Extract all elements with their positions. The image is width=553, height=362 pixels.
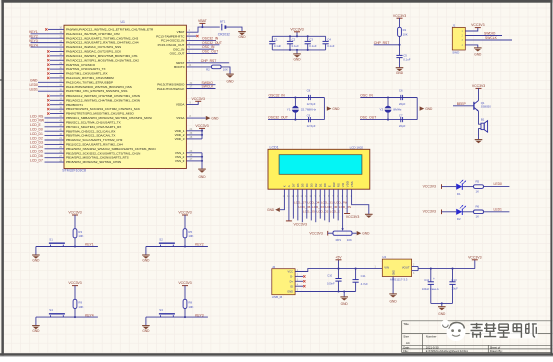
transistor S1 pushbutton <box>49 238 65 247</box>
junction VDD bus <box>201 130 203 136</box>
wire LCD_D3 to PB6 <box>30 141 64 145</box>
svg-text:GND: GND <box>425 107 433 111</box>
wire LCD_E LCD <box>329 189 340 222</box>
wire VSSA <box>186 115 205 118</box>
svg-text:SWDIO: SWDIO <box>484 32 496 36</box>
svg-text:E: E <box>327 185 331 187</box>
connector J2 USB_M <box>272 265 299 299</box>
resistor RP1 10K potentiometer <box>328 231 357 242</box>
wire LED0 net <box>484 182 510 187</box>
wire Y1 gnd bus <box>323 98 325 120</box>
wire BOOT0 <box>186 64 211 67</box>
transistor S2 pushbutton <box>159 238 175 247</box>
wire SWDIO J1 <box>465 32 502 36</box>
svg-text:File:: File: <box>403 349 409 353</box>
ground GND J1 <box>474 48 482 57</box>
wire KEY3 row <box>146 313 208 317</box>
wire KEY2 to gnd <box>145 247 147 255</box>
power port VCC3V3 VDD <box>195 124 208 128</box>
svg-text:+: + <box>433 277 435 281</box>
capacitor C12 100uF Case-A <box>422 269 439 304</box>
wire OSC32_IN net <box>269 93 325 97</box>
svg-text:PB5/I2C1_SMBA/SPI3_MOSI/I2S3_S: PB5/I2C1_SMBA/SPI3_MOSI/I2S3_SD/TIM3_CH2… <box>66 116 152 120</box>
svg-text:VSSA: VSSA <box>176 116 185 120</box>
wire LED1 to PA15 <box>30 87 65 91</box>
power port VCC3V3 VDDA <box>192 97 205 101</box>
wire J1 pin4 to gnd <box>465 45 478 48</box>
wire SWCLK <box>186 85 215 89</box>
resistor R5 1K <box>474 179 484 193</box>
wire BEEP net <box>453 102 474 106</box>
svg-text:2021-5-30: 2021-5-30 <box>426 345 439 349</box>
svg-text:LCD_D7: LCD_D7 <box>294 201 306 205</box>
svg-text:GND: GND <box>341 302 349 306</box>
svg-text:BOOT0: BOOT0 <box>174 65 185 69</box>
wire LCD VSS to gnd <box>352 189 369 214</box>
wire VBAT net <box>186 27 219 32</box>
buzzer B1 <box>481 117 488 132</box>
ground GND VSS <box>198 169 206 179</box>
svg-text:VSS: VSS <box>350 181 354 187</box>
power port +5V <box>335 255 342 268</box>
svg-text:LCD_D2: LCD_D2 <box>316 209 328 213</box>
node U2 pin1 number <box>375 267 377 269</box>
wire R8 to node <box>184 308 186 318</box>
ground GND battery <box>238 32 246 39</box>
svg-text:VCC3V3: VCC3V3 <box>423 210 436 214</box>
resistor R8 10K <box>183 299 193 309</box>
svg-text:D2: D2 <box>314 183 318 187</box>
svg-text:C2: C2 <box>292 38 296 42</box>
crystal Y2 8MHz <box>379 98 402 120</box>
svg-text:10uF: 10uF <box>451 287 458 291</box>
ground GND usb <box>340 292 348 307</box>
pin 10 no-connect stub <box>45 27 64 31</box>
svg-text:LED0: LED0 <box>30 83 39 87</box>
pin 15 no-connect stub <box>47 49 64 53</box>
svg-text:RS: RS <box>336 183 340 187</box>
power port VCC3V3 decoupling <box>290 27 303 36</box>
svg-text:100nF: 100nF <box>327 281 335 285</box>
svg-text:10K: 10K <box>78 234 83 238</box>
svg-text:GND: GND <box>362 232 370 236</box>
wire LCD K to gnd <box>280 189 285 210</box>
svg-text:KEY1: KEY1 <box>29 30 38 34</box>
wire LED0 to PA13 <box>30 83 65 87</box>
svg-text:C1: C1 <box>274 38 278 42</box>
wire CHP_RST net <box>374 41 400 45</box>
svg-text:LCD1: LCD1 <box>270 145 279 149</box>
svg-text:D-: D- <box>290 275 293 279</box>
svg-text:10K: 10K <box>403 33 408 37</box>
svg-text:A4: A4 <box>406 341 410 345</box>
svg-text:VCC3V3: VCC3V3 <box>290 27 303 31</box>
svg-text:GND: GND <box>287 289 293 293</box>
svg-text:C6: C6 <box>399 89 403 93</box>
wire LCD_D0 LCD <box>325 189 338 220</box>
ground GND regulator <box>389 294 397 303</box>
wire OSC32_OUT net <box>268 115 324 119</box>
wire VDDA <box>186 101 198 104</box>
wire decoupling top bus <box>272 35 325 37</box>
battery BT1 CR2032 <box>218 20 230 37</box>
wire SWDIO <box>186 81 215 85</box>
pin 29 no-connect stub <box>47 62 64 66</box>
svg-text:OSC_OUT: OSC_OUT <box>202 50 218 54</box>
svg-text:VDD_3: VDD_3 <box>175 137 185 141</box>
power port VCC3V3 KEY2 <box>178 211 191 229</box>
pin 40 no-connect stub <box>47 111 64 115</box>
svg-text:10K: 10K <box>347 238 352 242</box>
svg-text:SWD: SWD <box>452 51 460 55</box>
wire KEY3 to PA3 <box>29 39 64 43</box>
pin 30 no-connect stub <box>47 66 64 70</box>
svg-text:D2: D2 <box>457 217 461 221</box>
svg-text:PB4/NJTRST/SPI3_MISO/TIM3_CH1/: PB4/NJTRST/SPI3_MISO/TIM3_CH1/SPI1_MISO <box>66 112 134 116</box>
wire OSC_IN net <box>360 93 417 97</box>
svg-text:GND: GND <box>332 107 340 111</box>
wire LCD_D2 to PB5 <box>30 136 64 140</box>
wire KEY4 to PA4 <box>29 43 64 47</box>
svg-text:Y2: Y2 <box>379 108 383 112</box>
svg-text:LCD_RW: LCD_RW <box>30 119 45 123</box>
power port VCC3V3 buzzer <box>472 84 485 101</box>
svg-text:0.1uF: 0.1uF <box>309 44 317 48</box>
ground GND buzzer <box>475 140 483 144</box>
wire KEY2 row <box>146 243 208 247</box>
svg-text:R1: R1 <box>403 28 407 32</box>
svg-text:LCD_D2: LCD_D2 <box>30 136 43 140</box>
svg-text:R2: R2 <box>206 68 210 72</box>
pin 31 no-connect stub <box>47 71 64 75</box>
svg-text:LCD 1602: LCD 1602 <box>350 145 364 149</box>
pin USB D- no-connect <box>295 275 305 277</box>
svg-text:OSC_OUT: OSC_OUT <box>170 52 185 56</box>
svg-text:VCC: VCC <box>288 270 294 274</box>
svg-text:12.5pF: 12.5pF <box>307 124 316 128</box>
pin USB ID no-connect <box>295 285 305 287</box>
capacitor C1 0.1uF <box>269 36 281 50</box>
wire Y2 gnd bus <box>416 98 418 120</box>
svg-text:GND: GND <box>238 35 246 39</box>
svg-text:100uF Case-A: 100uF Case-A <box>422 287 439 291</box>
junction Y1 <box>294 96 296 120</box>
power port VCC3V3 KEY1 <box>68 211 81 229</box>
svg-text:10K: 10K <box>188 234 193 238</box>
svg-text:PA10/TIM1_CH3/USART1_RX: PA10/TIM1_CH3/USART1_RX <box>66 72 108 76</box>
power port VCC3V3 pot <box>309 231 327 236</box>
svg-text:C3: C3 <box>309 38 313 42</box>
svg-text:LCD_D4: LCD_D4 <box>308 201 320 205</box>
svg-text:LCD_D7: LCD_D7 <box>30 158 43 162</box>
svg-text:SS8050: SS8050 <box>481 105 492 109</box>
svg-text:OSC_OUT: OSC_OUT <box>360 115 376 119</box>
svg-text:LCD_D3: LCD_D3 <box>30 141 43 145</box>
svg-text:PB10/I2C2_SCL/USART3_TX/TIM2_C: PB10/I2C2_SCL/USART3_TX/TIM2_CH3 <box>66 138 123 142</box>
svg-text:ID: ID <box>290 284 293 288</box>
capacitor C11 4.7uF <box>353 268 369 292</box>
pin 32 no-connect stub <box>47 75 64 79</box>
svg-text:PC15-OSC32_OUT: PC15-OSC32_OUT <box>158 43 185 47</box>
wire output gnd rail <box>431 302 453 306</box>
svg-text:U1: U1 <box>121 20 125 24</box>
wire D2 to R6 <box>462 211 473 213</box>
wire LCD VDD to vcc <box>346 189 348 213</box>
node LCD pin names <box>283 181 354 187</box>
wire LCD_D4 to PB7 <box>30 145 64 149</box>
svg-text:PB3/JTDO/SPI3_SCK/I2S3_CK/TIM2: PB3/JTDO/SPI3_SCK/I2S3_CK/TIM2_CH2/SPI1_… <box>66 107 140 111</box>
svg-text:0.1uF: 0.1uF <box>403 58 411 62</box>
ground GND Y2 arrow <box>420 106 433 111</box>
capacitor C6 20pF <box>399 89 406 106</box>
svg-text:LED0: LED0 <box>494 182 503 186</box>
svg-text:PB15/SPI2_MOSI/I2S2_SD/TIM1_CH: PB15/SPI2_MOSI/I2S2_SD/TIM1_CH3N <box>66 160 121 164</box>
svg-text:D5: D5 <box>301 183 305 187</box>
wire VDD bus <box>186 128 202 139</box>
svg-text:PC14-OSC32_IN: PC14-OSC32_IN <box>161 39 184 43</box>
svg-text:VCC3V3: VCC3V3 <box>178 211 191 215</box>
svg-text:KEY4: KEY4 <box>29 43 38 47</box>
wire LCD_RW LCD <box>334 189 348 218</box>
svg-text:VDDA: VDDA <box>176 102 185 106</box>
svg-text:PA0/WKUP/ADC12_IN0/TIM2_CH1_ET: PA0/WKUP/ADC12_IN0/TIM2_CH1_ETR/TIM5_CH1… <box>66 28 154 32</box>
svg-text:D3: D3 <box>309 183 313 187</box>
junction VSS bus <box>201 156 203 162</box>
wire USB gnd bus <box>295 291 356 293</box>
svg-text:SWCLK: SWCLK <box>202 85 215 89</box>
svg-text:OSC32_OUT: OSC32_OUT <box>202 41 222 45</box>
svg-text:VCC3V3: VCC3V3 <box>68 211 81 215</box>
svg-text:+5V: +5V <box>335 255 342 259</box>
svg-text:PA15/TIM2_CH1_ETR/SPI3_NSS/SPI: PA15/TIM2_CH1_ETR/SPI3_NSS/SPI1_NSS <box>66 89 127 93</box>
ground GND LCD VSS <box>365 214 373 218</box>
svg-text:PB9/TIM4_CH4/I2C1_SDA/CAN_TX: PB9/TIM4_CH4/I2C1_SDA/CAN_TX <box>66 134 115 138</box>
wire U2 vout bus <box>412 265 475 275</box>
svg-text:GND: GND <box>394 270 396 275</box>
svg-text:Title: Title <box>403 322 409 326</box>
ground GND KEY1 <box>32 255 40 262</box>
wire LCD_D3 LCD <box>311 189 324 220</box>
crystal Y1 32.768KHz <box>287 98 317 120</box>
svg-text:VCC3V3: VCC3V3 <box>178 281 191 285</box>
svg-text:GND: GND <box>32 258 40 262</box>
svg-text:PA4/ADC12_IN4/DAC_OUT1/SPI1_NS: PA4/ADC12_IN4/DAC_OUT1/SPI1_NSS <box>66 45 121 49</box>
svg-text:PA1/ADC12_IN1/TIM5_CH2/TIM2_CH: PA1/ADC12_IN1/TIM5_CH2/TIM2_CH2 <box>66 32 120 36</box>
svg-text:PB14/SPI2_MISO/TIM1_CH2N/USART: PB14/SPI2_MISO/TIM1_CH2N/USART3_RTS <box>66 156 129 160</box>
svg-text:GND: GND <box>293 57 301 61</box>
svg-text:GND: GND <box>474 53 482 57</box>
svg-text:D0: D0 <box>323 183 327 187</box>
connector J1 SWD <box>452 23 465 54</box>
wire D1 to R5 <box>462 186 473 188</box>
svg-text:PB11/I2C2_SDA/USART3_RX/TIM2_C: PB11/I2C2_SDA/USART3_RX/TIM2_CH4 <box>66 143 123 147</box>
svg-text:C9: C9 <box>307 113 311 117</box>
wire OSC32_OUT stub <box>186 41 221 45</box>
wire LCD_D6 to PB9 <box>30 154 64 158</box>
capacitor C13 10uF <box>449 269 458 304</box>
svg-text:LCD_D5: LCD_D5 <box>303 209 315 213</box>
svg-text:10K: 10K <box>223 68 228 72</box>
svg-text:20pF: 20pF <box>399 102 406 106</box>
wire CHP_RST to NRST <box>186 59 229 63</box>
svg-text:1K: 1K <box>476 189 480 193</box>
capacitor C3 0.1uF <box>305 36 317 50</box>
wire LCD_D6 LCD <box>298 189 311 220</box>
power port VBAT <box>198 19 208 27</box>
wire R9 to node <box>74 308 76 318</box>
svg-text:VCC3V3: VCC3V3 <box>468 255 481 259</box>
op-amp U2 AMS1117-3.3 <box>382 255 411 281</box>
svg-text:GND: GND <box>30 79 38 83</box>
svg-text:GND: GND <box>198 175 206 179</box>
wire OSC_OUT stub <box>186 50 218 54</box>
pin USB D+ no-connect <box>295 280 305 282</box>
capacitor C10 100nF <box>327 269 342 292</box>
junction Y2 <box>387 96 389 120</box>
wire battery to gnd <box>225 27 242 31</box>
wire LCD_RS LCD <box>338 189 351 220</box>
ground GND Y1 arrow <box>327 106 340 111</box>
svg-text:VIN: VIN <box>384 266 389 270</box>
transistor S4 pushbutton <box>49 308 65 317</box>
svg-text:Size: Size <box>403 335 409 339</box>
svg-text:PA12/CAN_TX/TIM1_ETR/USBDP: PA12/CAN_TX/TIM1_ETR/USBDP <box>66 80 113 84</box>
wire U2 gnd <box>392 277 394 294</box>
capacitor C8 12.5pF <box>307 89 316 106</box>
svg-text:C4: C4 <box>327 38 331 42</box>
svg-text:USB_M: USB_M <box>272 295 283 299</box>
svg-text:GND: GND <box>267 208 275 212</box>
svg-text:10K: 10K <box>78 305 83 309</box>
svg-text:D7: D7 <box>292 183 296 187</box>
svg-text:OSC_IN: OSC_IN <box>173 47 184 51</box>
wire LCD_D0 to PB3 <box>30 127 64 131</box>
svg-text:A: A <box>287 185 291 187</box>
svg-text:LED1: LED1 <box>494 207 503 211</box>
ground GND KEY3 <box>142 326 150 333</box>
svg-text:GND: GND <box>142 258 150 262</box>
power port VCC3V3 J1 <box>471 23 484 27</box>
wire LCD_D4 LCD <box>307 189 320 218</box>
svg-text:Y1: Y1 <box>287 108 291 112</box>
svg-text:VDD: VDD <box>345 181 349 187</box>
svg-text:Drawn By:: Drawn By: <box>490 349 503 353</box>
ground GND boot0 <box>226 74 234 84</box>
wire KEY3 to gnd <box>145 317 147 325</box>
wire LCD_D7 LCD <box>293 189 306 218</box>
power port VCC3V3 KEY3 <box>178 281 191 299</box>
junction reset node <box>398 44 400 46</box>
resistor R5 10K <box>183 229 193 239</box>
svg-text:E:\STM32\LiuShuiDeng\Sheet1.Sc: E:\STM32\LiuShuiDeng\Sheet1.SchDoc <box>426 350 469 353</box>
svg-text:VCC3V3: VCC3V3 <box>68 281 81 285</box>
svg-text:0.1uF: 0.1uF <box>292 44 300 48</box>
pin 17 no-connect stub <box>47 57 64 61</box>
svg-text:C11: C11 <box>361 274 366 278</box>
wire OSC_IN stub <box>186 45 215 49</box>
power port VCC3V3 output <box>468 255 481 268</box>
wire VSS bus <box>186 150 202 169</box>
svg-text:VCC3V3: VCC3V3 <box>346 215 359 219</box>
svg-text:OSC32_OUT: OSC32_OUT <box>268 115 288 119</box>
power port VCC3V3 reset <box>393 14 406 28</box>
svg-text:KEY3: KEY3 <box>195 313 204 317</box>
wire R2 to gnd <box>221 67 230 74</box>
svg-text:8MHz: 8MHz <box>393 108 402 112</box>
capacitor C9 12.5pF <box>307 113 316 128</box>
wire Q1 emitter to buzzer <box>479 111 482 139</box>
svg-text:10K: 10K <box>188 305 193 309</box>
svg-text:LCD_D0: LCD_D0 <box>30 127 43 131</box>
diode LED D2 <box>456 205 466 221</box>
svg-text:LCD_D0: LCD_D0 <box>325 205 337 209</box>
svg-text:LCD_D6: LCD_D6 <box>30 154 43 158</box>
resistor R2 10K <box>206 65 228 72</box>
svg-text:S2: S2 <box>159 238 163 242</box>
junction decoupling vcc <box>296 35 298 37</box>
diode LED D1 <box>456 180 466 196</box>
wire KEY1 to PA1 <box>29 30 64 34</box>
svg-text:LCD_RS: LCD_RS <box>339 205 351 209</box>
svg-text:B1: B1 <box>481 117 485 121</box>
svg-text:0.1uF: 0.1uF <box>274 44 282 48</box>
svg-text:OSC32_IN: OSC32_IN <box>202 36 219 40</box>
capacitor C7 20pF <box>399 113 406 128</box>
junction C10 <box>337 290 345 292</box>
svg-text:GND: GND <box>438 312 446 316</box>
svg-text:VCC3V3: VCC3V3 <box>192 97 205 101</box>
svg-text:AMS1117-3.3: AMS1117-3.3 <box>390 278 408 282</box>
svg-text:J1: J1 <box>452 23 456 27</box>
svg-text:VBAT: VBAT <box>198 19 208 23</box>
wire GND to PA12 <box>30 79 64 83</box>
svg-text:32.768KHz: 32.768KHz <box>301 108 317 112</box>
svg-text:KEY1: KEY1 <box>85 243 94 247</box>
svg-text:PA8/TIM1_CH1/MCO: PA8/TIM1_CH1/MCO <box>66 63 96 67</box>
resistor R9 10K <box>73 299 83 309</box>
svg-text:KEY2: KEY2 <box>195 243 204 247</box>
wire KEY1 row <box>36 243 98 247</box>
svg-text:PA14/JTCK/SWCLK: PA14/JTCK/SWCLK <box>157 87 184 91</box>
svg-text:12.5pF: 12.5pF <box>307 102 316 106</box>
svg-text:C13: C13 <box>451 278 457 282</box>
svg-text:VCC3V3: VCC3V3 <box>309 231 322 235</box>
svg-text:VCC3V3: VCC3V3 <box>472 84 485 88</box>
svg-text:4.7uF: 4.7uF <box>361 282 369 286</box>
pin 16 no-connect stub <box>47 53 64 57</box>
svg-text:PA9/TIM1_CH2/USART1_TX: PA9/TIM1_CH2/USART1_TX <box>66 67 106 71</box>
wire LCD_D1 to PB4 <box>30 132 64 136</box>
svg-text:VCC3V3: VCC3V3 <box>471 23 484 27</box>
wire LED1 net <box>484 207 510 212</box>
svg-text:LCD_D6: LCD_D6 <box>299 205 311 209</box>
svg-text:D1: D1 <box>457 192 461 196</box>
svg-text:VCC3V3: VCC3V3 <box>423 185 436 189</box>
svg-text:LCD_D1: LCD_D1 <box>30 132 43 136</box>
wire LCD_D5 to PB8 <box>30 150 64 154</box>
wire vcc to D2 <box>442 211 457 213</box>
svg-text:PA11/CAN_RX/TIM1_CH4/USBDM: PA11/CAN_RX/TIM1_CH4/USBDM <box>66 76 114 80</box>
op-amp LCD1 module 1602 <box>268 145 370 189</box>
wire KEY4 row <box>36 313 98 317</box>
svg-text:C8: C8 <box>307 89 311 93</box>
svg-text:VOUT: VOUT <box>402 266 410 270</box>
svg-text:R6: R6 <box>476 205 480 209</box>
svg-text:OSC_IN: OSC_IN <box>360 93 373 97</box>
svg-text:GND: GND <box>32 329 40 333</box>
svg-text:PB8/TIM4_CH3/I2C1_SCL/CAN_RX: PB8/TIM4_CH3/I2C1_SCL/CAN_RX <box>66 129 115 133</box>
wire decoupling bottom bus <box>272 49 325 51</box>
